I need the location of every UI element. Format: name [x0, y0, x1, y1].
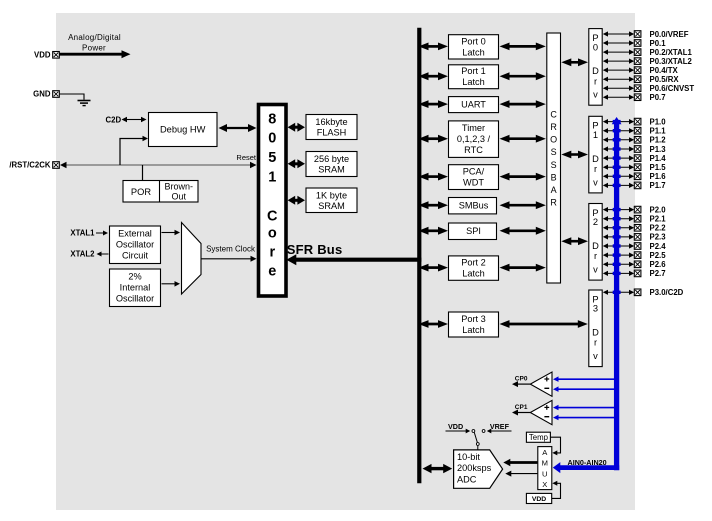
- pin P0.2/XTAL1: [634, 49, 641, 56]
- clock mux: [182, 223, 202, 295]
- svg-text:P1.4: P1.4: [650, 154, 667, 163]
- pin P0.1: [634, 40, 641, 47]
- svg-text:P2.0: P2.0: [650, 205, 667, 214]
- svg-text:Port 2: Port 2: [461, 258, 486, 268]
- switch contact a: [472, 430, 475, 433]
- wire PCA/WDT to crossbar: [509, 175, 537, 178]
- svg-text:Oscillator: Oscillator: [116, 293, 154, 303]
- pin P2.2: [634, 225, 641, 232]
- wire core-flash: [294, 126, 298, 129]
- wire pin P2.4: [607, 245, 630, 247]
- pin P1.7: [634, 182, 641, 189]
- svg-text:0,1,2,3 /: 0,1,2,3 /: [457, 134, 491, 144]
- svg-text:P1.6: P1.6: [650, 172, 667, 181]
- svg-text:1K byte: 1K byte: [316, 191, 347, 201]
- wire pin P1.4: [607, 157, 630, 159]
- pin P2.7: [634, 270, 641, 277]
- svg-text:A: A: [551, 185, 557, 195]
- svg-text:o: o: [268, 226, 277, 242]
- wire pin P3.0/C2D: [607, 291, 630, 293]
- POR / brown-out block: [123, 181, 198, 203]
- wire sfrbus to port 0 latch: [428, 45, 440, 48]
- svg-text:P2.1: P2.1: [650, 215, 667, 224]
- P0 drv block: [589, 29, 602, 106]
- svg-text:XTAL2: XTAL2: [70, 250, 95, 259]
- switch pole: [476, 443, 479, 446]
- svg-text:POR: POR: [131, 187, 151, 197]
- wire sfrbus to UART: [428, 103, 440, 106]
- svg-text:D: D: [592, 154, 599, 164]
- wire intosc to mux: [162, 283, 176, 285]
- wire core-sram1k: [294, 199, 298, 202]
- svg-text:3: 3: [593, 304, 598, 314]
- pin P0.0/VREF: [634, 31, 641, 38]
- wire timer/RTC to crossbar: [509, 137, 537, 140]
- wire pin P2.7: [607, 272, 630, 274]
- wire UART to crossbar: [509, 103, 537, 106]
- blue analog bus junction dots: [613, 120, 621, 123]
- wire pin P1.3: [607, 148, 630, 150]
- switch contact b: [482, 430, 485, 433]
- pin P2.4: [634, 243, 641, 250]
- svg-text:8: 8: [268, 111, 276, 127]
- svg-text:VDD: VDD: [532, 496, 546, 503]
- comparator CP0: [530, 372, 552, 396]
- wire debug to core: [226, 127, 249, 129]
- port 3 latch block: [449, 312, 499, 337]
- wire pin P1.0: [607, 121, 630, 123]
- wire pin P0.6/CNVST: [607, 87, 630, 89]
- wire pin P1.2: [607, 139, 630, 141]
- wire sfrbus to port 3 latch: [428, 323, 440, 326]
- svg-text:D: D: [592, 241, 599, 251]
- wire sfrbus to timer/RTC: [428, 137, 440, 140]
- svg-text:P2.6: P2.6: [650, 260, 667, 269]
- svg-text:P0.3/XTAL2: P0.3/XTAL2: [650, 57, 693, 66]
- wire reset to debug: [120, 139, 145, 166]
- pin P0.5/RX: [634, 76, 641, 83]
- svg-text:Timer: Timer: [462, 123, 485, 133]
- pin P1.0: [634, 118, 641, 125]
- svg-text:Latch: Latch: [462, 325, 484, 335]
- port 2 latch block: [449, 256, 499, 280]
- wire sfrbus to PCA/WDT: [428, 175, 440, 178]
- svg-text:r: r: [269, 244, 275, 260]
- wire crossbar to P0 drv: [570, 61, 579, 64]
- wire pin P0.3/XTAL2: [607, 60, 630, 62]
- svg-text:XTAL1: XTAL1: [70, 229, 95, 238]
- UART block: [449, 97, 499, 113]
- pin P2.6: [634, 261, 641, 268]
- svg-text:P1.1: P1.1: [650, 127, 667, 136]
- switch lever: [474, 433, 477, 443]
- svg-text:P0.0/VREF: P0.0/VREF: [650, 30, 689, 39]
- svg-text:VREF: VREF: [490, 422, 510, 431]
- ADC block: [454, 450, 503, 488]
- wire CP0 inputs (blue): [558, 378, 616, 380]
- svg-text:P0.2/XTAL1: P0.2/XTAL1: [650, 48, 693, 57]
- debug HW block: [149, 113, 218, 147]
- svg-text:v: v: [593, 351, 598, 361]
- wire xtal2: [101, 253, 109, 255]
- svg-text:Debug HW: Debug HW: [160, 125, 206, 135]
- svg-text:Port 1: Port 1: [461, 66, 486, 76]
- diagram background: [56, 13, 635, 510]
- svg-text:Brown-: Brown-: [164, 182, 193, 192]
- svg-text:UART: UART: [461, 100, 486, 110]
- wire pin P2.3: [607, 236, 630, 238]
- svg-text:P0.5/RX: P0.5/RX: [650, 75, 680, 84]
- 8051 core block: [259, 105, 287, 297]
- svg-text:External: External: [118, 228, 152, 238]
- svg-text:256 byte: 256 byte: [314, 154, 349, 164]
- svg-text:VDD: VDD: [448, 422, 463, 431]
- pin P2.5: [634, 252, 641, 259]
- wire pin P2.1: [607, 218, 630, 220]
- svg-text:P2.4: P2.4: [650, 242, 667, 251]
- svg-text:VDD: VDD: [34, 50, 51, 59]
- AMUX block: [538, 447, 552, 490]
- svg-text:Out: Out: [171, 192, 186, 202]
- comparator CP1: [530, 400, 552, 424]
- svg-text:P0.7: P0.7: [650, 93, 666, 102]
- svg-text:2%: 2%: [128, 271, 141, 281]
- wire pin P1.6: [607, 175, 630, 177]
- svg-text:200ksps: 200ksps: [457, 463, 492, 473]
- pin P0.3/XTAL2: [634, 58, 641, 65]
- pin P0.4/TX: [634, 67, 641, 74]
- svg-text:Port 3: Port 3: [461, 314, 486, 324]
- pin P2.3: [634, 234, 641, 241]
- wire crossbar to P1 drv: [570, 153, 579, 156]
- pin P1.2: [634, 137, 641, 144]
- crossbar block: [547, 33, 561, 283]
- svg-text:Power: Power: [82, 43, 106, 52]
- P1 drv block: [589, 116, 602, 193]
- wire sfrbus to port 2 latch: [428, 266, 440, 269]
- blue wire bus to amux: [559, 465, 619, 470]
- vdd block (amux): [526, 493, 551, 503]
- port 1 latch block: [449, 65, 499, 89]
- sram1k block: [306, 188, 357, 213]
- wire pin P1.1: [607, 130, 630, 132]
- svg-text:SRAM: SRAM: [318, 165, 345, 175]
- svg-text:P2.5: P2.5: [650, 251, 667, 260]
- svg-text:D: D: [592, 328, 599, 338]
- wire pin P0.4/TX: [607, 69, 630, 71]
- svg-text:FLASH: FLASH: [317, 128, 347, 138]
- svg-text:SPI: SPI: [466, 226, 481, 236]
- wire CP1 inputs (blue): [558, 407, 616, 409]
- svg-text:P1.0: P1.0: [650, 117, 667, 126]
- wire pin P0.7: [607, 96, 630, 98]
- svg-text:S: S: [551, 147, 557, 157]
- svg-text:U: U: [542, 469, 547, 478]
- svg-text:r: r: [594, 338, 597, 348]
- svg-text:r: r: [594, 164, 597, 174]
- wire extosc to mux: [162, 232, 176, 234]
- svg-text:P2.7: P2.7: [650, 269, 666, 278]
- wire sfrbus to port 1 latch: [428, 75, 440, 78]
- wire SPI to crossbar: [509, 229, 537, 232]
- wire SMBus to crossbar: [509, 204, 537, 207]
- svg-text:P1.2: P1.2: [650, 136, 667, 145]
- svg-text:O: O: [550, 135, 557, 145]
- wire gnd: [60, 94, 85, 100]
- temp sensor block: [526, 432, 550, 442]
- pin P2.0: [634, 206, 641, 213]
- wire pin P2.2: [607, 227, 630, 229]
- svg-text:e: e: [268, 264, 276, 280]
- svg-text:1: 1: [593, 130, 598, 140]
- svg-text:C2D: C2D: [106, 115, 122, 124]
- wire vdd block to amux: [552, 483, 561, 498]
- svg-text:SFR Bus: SFR Bus: [287, 242, 343, 257]
- pin P0.7: [634, 94, 641, 101]
- svg-text:Reset: Reset: [236, 153, 257, 162]
- wire temp to amux: [551, 437, 561, 453]
- svg-text:Latch: Latch: [462, 47, 484, 57]
- svg-text:10-bit: 10-bit: [457, 452, 480, 462]
- svg-text:0: 0: [593, 42, 598, 52]
- svg-text:1: 1: [268, 169, 276, 185]
- port 0 latch block: [449, 35, 499, 59]
- svg-text:Analog/Digital: Analog/Digital: [68, 33, 121, 42]
- svg-text:Port 0: Port 0: [461, 36, 486, 46]
- ground symbol: [78, 100, 91, 102]
- svg-text:/RST/C2CK: /RST/C2CK: [9, 161, 51, 170]
- svg-text:CP1: CP1: [515, 404, 528, 411]
- wire sfrbus to ADC: [431, 467, 445, 470]
- svg-text:SMBus: SMBus: [459, 201, 489, 211]
- SPI block: [449, 223, 497, 240]
- wire xtal1: [96, 232, 104, 234]
- wire pin P0.0/VREF: [607, 33, 630, 35]
- svg-text:Oscillator: Oscillator: [116, 239, 154, 249]
- wire port 1 latch to crossbar: [509, 75, 537, 78]
- wire pin P2.0: [607, 209, 630, 211]
- wire CP1 output: [517, 412, 530, 414]
- wire pin P1.5: [607, 166, 630, 168]
- svg-text:P3.0/C2D: P3.0/C2D: [650, 288, 684, 297]
- wire crossbar to P2 drv: [570, 240, 579, 243]
- pin P1.5: [634, 164, 641, 171]
- sram256 block: [306, 152, 357, 177]
- svg-text:ADC: ADC: [457, 475, 477, 485]
- wire port 0 latch to crossbar: [509, 45, 537, 48]
- pin /RST/C2CK: [53, 162, 60, 169]
- wire reset to POR: [142, 165, 144, 181]
- svg-text:PCA/: PCA/: [463, 167, 485, 177]
- wire analog/digital power arrow: [60, 53, 123, 56]
- wire port 2 latch to crossbar: [509, 266, 537, 269]
- svg-text:X: X: [542, 480, 547, 489]
- SMBus block: [449, 198, 497, 214]
- wire pin P2.6: [607, 263, 630, 265]
- wire pin P0.1: [607, 42, 630, 44]
- PCA/WDT block: [449, 165, 499, 190]
- wire SFR bus vertical: [417, 28, 421, 484]
- svg-text:P0.6/CNVST: P0.6/CNVST: [650, 84, 695, 93]
- wire core-sram256: [294, 162, 298, 165]
- svg-text:B: B: [551, 172, 557, 182]
- svg-text:R: R: [550, 198, 557, 208]
- svg-text:P1.7: P1.7: [650, 181, 666, 190]
- pin P1.6: [634, 173, 641, 180]
- svg-text:P1.3: P1.3: [650, 145, 667, 154]
- svg-text:C: C: [267, 208, 278, 224]
- pin P1.4: [634, 155, 641, 162]
- svg-text:Temp: Temp: [529, 433, 549, 442]
- wire amux to adc thin: [510, 473, 537, 475]
- svg-text:5: 5: [268, 150, 276, 166]
- svg-text:P0.4/TX: P0.4/TX: [650, 66, 679, 75]
- P2 drv block: [589, 204, 602, 281]
- pin P1.3: [634, 146, 641, 153]
- svg-text:Internal: Internal: [120, 282, 151, 292]
- svg-text:Latch: Latch: [462, 77, 484, 87]
- wire port 3 latch to P3 drv: [509, 323, 579, 326]
- svg-text:P2.3: P2.3: [650, 233, 667, 242]
- pin P0.6/CNVST: [634, 85, 641, 92]
- wire vref to switch: [490, 430, 511, 432]
- wire pin P0.5/RX: [607, 78, 630, 80]
- svg-text:2: 2: [593, 217, 598, 227]
- svg-text:r: r: [594, 76, 597, 86]
- svg-text:v: v: [593, 265, 598, 275]
- pin GND: [53, 91, 60, 98]
- svg-text:r: r: [594, 251, 597, 261]
- svg-text:C: C: [550, 109, 557, 119]
- svg-text:M: M: [542, 459, 548, 468]
- pin P1.1: [634, 127, 641, 134]
- svg-text:R: R: [550, 122, 557, 132]
- svg-text:16kbyte: 16kbyte: [315, 117, 347, 127]
- pin VDD: [53, 52, 60, 59]
- wire amux to adc thick: [509, 461, 537, 464]
- wire pin P2.5: [607, 254, 630, 256]
- external oscillator block: [110, 226, 161, 264]
- svg-text:S: S: [551, 160, 557, 170]
- svg-text:SRAM: SRAM: [318, 201, 345, 211]
- svg-text:v: v: [593, 90, 598, 100]
- svg-text:AIN0-AIN20: AIN0-AIN20: [568, 458, 607, 467]
- svg-text:CP0: CP0: [515, 376, 528, 383]
- svg-text:P2.2: P2.2: [650, 224, 667, 233]
- wire sfrbus to SPI: [428, 229, 440, 232]
- flash block: [306, 115, 357, 140]
- wire pin P0.2/XTAL1: [607, 51, 630, 53]
- svg-text:Circuit: Circuit: [122, 250, 148, 260]
- P3 drv block: [589, 290, 602, 367]
- wire sfrbus to SMBus: [428, 204, 440, 207]
- svg-text:RTC: RTC: [464, 145, 483, 155]
- wire SFR bus horizontal: [294, 258, 421, 262]
- pin P3.0/C2D: [634, 289, 641, 296]
- svg-text:WDT: WDT: [463, 178, 484, 188]
- svg-text:0: 0: [268, 131, 276, 147]
- internal oscillator block: [110, 269, 161, 307]
- wire reset (gray): [62, 164, 253, 166]
- wire pin P1.7: [607, 184, 630, 186]
- wire CP0 output: [517, 383, 530, 385]
- svg-text:Latch: Latch: [462, 269, 484, 279]
- svg-text:P0.1: P0.1: [650, 39, 667, 48]
- svg-text:System Clock: System Clock: [206, 244, 256, 253]
- svg-text:GND: GND: [33, 90, 51, 99]
- svg-text:P1.5: P1.5: [650, 163, 667, 172]
- timer/RTC block: [449, 121, 499, 157]
- wire vdd to switch: [446, 430, 467, 432]
- blue analog bus vertical: [614, 121, 619, 470]
- svg-text:D: D: [592, 66, 599, 76]
- wire system clock to core: [201, 258, 252, 260]
- svg-text:v: v: [593, 177, 598, 187]
- pin P2.1: [634, 215, 641, 222]
- wire C2D to debug: [126, 119, 142, 121]
